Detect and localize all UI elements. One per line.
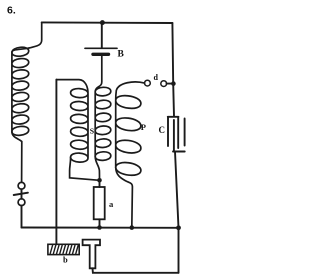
inductor antenna coil (left) xyxy=(12,47,29,135)
coil S right winding xyxy=(95,56,111,160)
capacitor C top plate bar xyxy=(168,116,179,118)
interrupter contact upper ball xyxy=(18,182,25,189)
coil P primary winding xyxy=(116,82,145,175)
capacitor C plate line right outer xyxy=(184,119,186,146)
wire P winding exit xyxy=(116,167,133,227)
capacitor C bottom plate bar xyxy=(173,151,185,153)
node bus dot right end xyxy=(176,225,181,230)
tapper hammer (T shape) xyxy=(83,240,100,269)
wire S right winding bottom xyxy=(95,157,99,181)
wire lower-left down to bottom bus xyxy=(21,206,23,228)
interrupter crossbar xyxy=(14,193,28,195)
svg-text:a: a xyxy=(109,199,114,209)
node bus dot below a xyxy=(97,225,102,230)
wire mid vertical (S coil left lead down to coherer) xyxy=(55,80,57,245)
node right rail dot at switch xyxy=(171,81,176,86)
interrupter wire between balls xyxy=(21,189,23,199)
svg-text:b: b xyxy=(63,255,68,265)
coil S left winding xyxy=(56,80,88,163)
svg-text:d: d xyxy=(154,73,159,82)
wire resistor a to bus xyxy=(99,219,101,227)
switch d right contact xyxy=(161,81,167,87)
wire left branch top (corner to antenna coil) xyxy=(12,22,42,52)
wire right rail upper xyxy=(172,23,174,116)
battery junction dot on top wire xyxy=(100,20,105,25)
interrupter contact lower ball xyxy=(18,199,25,206)
svg-text:P: P xyxy=(141,122,146,132)
svg-text:S: S xyxy=(90,127,94,136)
coherer b hatched box xyxy=(48,244,79,254)
battery B positive plate xyxy=(85,47,117,49)
resistor a box xyxy=(94,187,105,219)
wire switch d to right rail xyxy=(167,83,174,85)
svg-text:C: C xyxy=(159,125,166,135)
switch d left contact xyxy=(145,80,151,86)
wire S left winding bottom xyxy=(70,157,100,180)
wire junction to resistor a xyxy=(99,180,101,187)
wire battery branch upper xyxy=(101,23,103,48)
svg-text:B: B xyxy=(118,50,125,60)
wire top horizontal xyxy=(42,21,173,24)
wire tapper to bottom return xyxy=(93,268,179,273)
node S bottom junction dot xyxy=(97,178,102,183)
node bus dot below P xyxy=(130,225,135,230)
wire antenna coil to interrupter xyxy=(12,132,22,182)
svg-text:6.: 6. xyxy=(7,5,16,17)
capacitor C plate line left outer xyxy=(167,117,169,146)
capacitor C plate line inner (wire plate) xyxy=(173,120,175,151)
wire right rail lower xyxy=(175,152,179,273)
wire bottom bus horizontal xyxy=(22,227,179,229)
capacitor C plate line inner right of wire xyxy=(177,117,179,148)
battery B negative plate xyxy=(93,53,109,56)
